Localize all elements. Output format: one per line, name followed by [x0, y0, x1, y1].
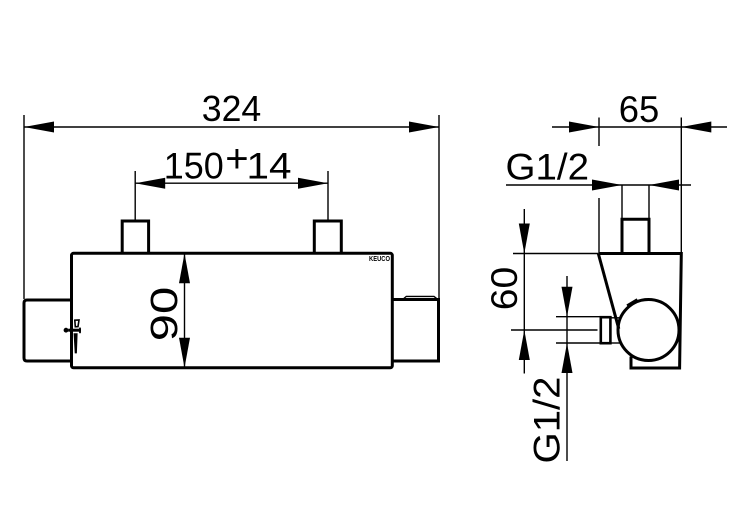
dim 65 arrow left (outside) — [569, 122, 599, 133]
right cap top bevel — [403, 296, 438, 299]
lever pivot dot — [64, 328, 69, 333]
side outlet neck bottom — [611, 342, 620, 344]
side body outline — [598, 254, 681, 369]
dim 65 extension line left (lower segment) — [598, 198, 600, 252]
svg-text:90: 90 — [144, 287, 186, 342]
svg-text:324: 324 — [202, 88, 262, 129]
svg-text:65: 65 — [619, 89, 660, 130]
dim G1/2 top extension line left — [621, 185, 623, 219]
svg-text:+: + — [225, 137, 248, 181]
svg-text:KEUCO: KEUCO — [369, 254, 390, 263]
dim 150+14 arrow left — [135, 178, 165, 189]
dim G1/2 outlet leader line — [566, 276, 568, 461]
dim 60 top reference line — [513, 253, 598, 255]
temperature stop button on handwheel — [627, 300, 637, 306]
svg-text:14: 14 — [247, 145, 292, 186]
dim 60 arrow bottom (outside, pointing up) — [519, 330, 530, 360]
dim G1/2 outlet arrow bottom (pointing up) — [562, 343, 573, 373]
dim G1/2 top leader line — [506, 184, 691, 186]
dim G1/2 top arrow left — [592, 180, 622, 191]
svg-text:60: 60 — [484, 267, 525, 311]
side body slanted front edge — [598, 254, 619, 329]
dim 65 arrow right (outside) — [681, 122, 711, 133]
dim G1/2 top arrow right — [649, 180, 679, 191]
left inlet connector — [122, 221, 148, 253]
side outlet neck top — [611, 317, 620, 319]
handwheel circle — [618, 300, 679, 361]
dim 324 extension line left — [23, 115, 25, 299]
dim 65 extension line left (upper segment) — [598, 118, 600, 147]
dim 324 extension line right — [438, 115, 440, 298]
right end cap — [393, 300, 439, 362]
dim G1/2 top extension line right — [648, 185, 650, 219]
svg-text:G1/2: G1/2 — [506, 146, 590, 187]
dim 324 arrow left — [24, 122, 54, 133]
right inlet connector — [314, 221, 341, 253]
top connection nipple G1/2 — [622, 219, 649, 253]
lever cross tick — [68, 329, 81, 332]
side outlet flange — [601, 317, 611, 343]
lever blade (lower wedge) — [74, 334, 77, 353]
dim 65 line — [552, 126, 727, 128]
lever knob (top quad) — [75, 320, 79, 327]
dim 150+14 extension line right — [327, 171, 329, 220]
dim G1/2 outlet bottom reference line — [556, 342, 601, 344]
dim G1/2 outlet top reference line — [556, 316, 601, 318]
dim 324 arrow right — [409, 122, 439, 133]
svg-text:150: 150 — [164, 145, 224, 186]
dim 324 line — [24, 126, 439, 128]
dim 60 bottom reference line (outlet centerline) — [511, 329, 598, 331]
dim 65 extension line right — [680, 118, 682, 253]
dim G1/2 outlet arrow top (pointing down) — [562, 287, 573, 317]
dim 150+14 arrow right — [298, 178, 328, 189]
mixer body (front view) — [72, 253, 393, 367]
dim 90 arrow down — [179, 338, 190, 368]
left end cap — [24, 300, 72, 361]
dim 60 arrow top (outside, pointing down) — [519, 224, 530, 254]
dim 60 line — [523, 209, 525, 374]
svg-text:G1/2: G1/2 — [527, 377, 568, 464]
dim 90 arrow up — [179, 253, 190, 283]
dim 150+14 line — [135, 182, 328, 184]
dim 150+14 extension line left — [134, 171, 136, 220]
dim 90 line — [184, 253, 186, 367]
